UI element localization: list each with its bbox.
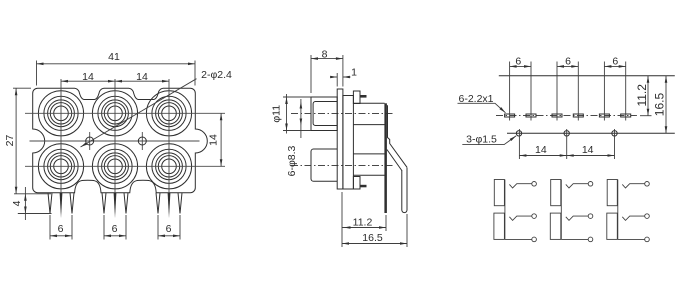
- svg-text:14: 14: [582, 144, 594, 156]
- svg-text:27: 27: [4, 135, 16, 147]
- svg-text:6: 6: [112, 223, 118, 235]
- svg-text:6: 6: [58, 223, 64, 235]
- svg-text:16.5: 16.5: [362, 232, 383, 244]
- svg-text:11.2: 11.2: [635, 84, 649, 107]
- svg-text:41: 41: [108, 51, 120, 63]
- svg-text:14: 14: [82, 71, 94, 83]
- svg-text:6: 6: [565, 55, 571, 67]
- svg-text:φ11: φ11: [271, 105, 283, 123]
- svg-text:11.2: 11.2: [353, 216, 373, 228]
- svg-text:3-φ1.5: 3-φ1.5: [466, 133, 497, 145]
- svg-text:14: 14: [136, 71, 148, 83]
- svg-text:4: 4: [11, 200, 23, 206]
- svg-text:6: 6: [515, 55, 521, 67]
- svg-text:1: 1: [351, 66, 357, 78]
- svg-text:6-φ8.3: 6-φ8.3: [286, 145, 298, 176]
- svg-text:14: 14: [207, 134, 219, 146]
- svg-text:8: 8: [322, 49, 328, 61]
- svg-text:16.5: 16.5: [653, 92, 667, 116]
- svg-text:14: 14: [535, 144, 547, 156]
- svg-text:2-φ2.4: 2-φ2.4: [201, 69, 232, 81]
- svg-text:6: 6: [166, 223, 172, 235]
- svg-text:6: 6: [612, 55, 618, 67]
